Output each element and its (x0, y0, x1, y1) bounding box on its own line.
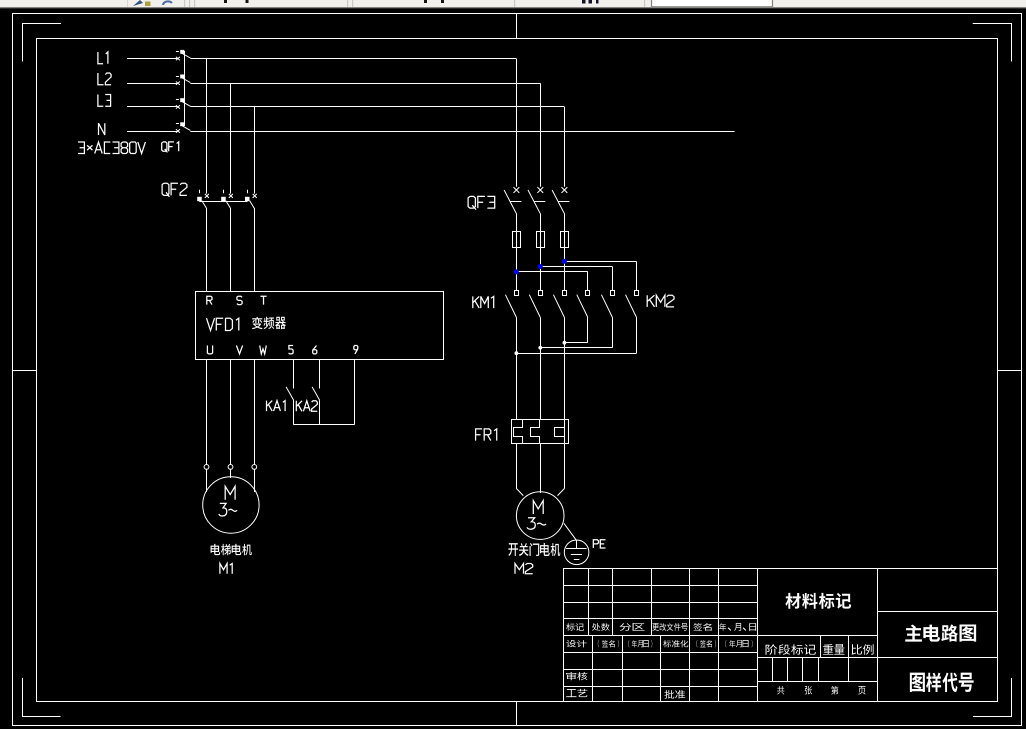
node N label (99, 123, 105, 135)
label KA2 (296, 401, 317, 412)
tb label sheji (566, 640, 586, 647)
label KM1 (473, 296, 494, 308)
pin U (207, 346, 212, 354)
label KA1 (267, 401, 286, 412)
node junction blue dot 3 (562, 259, 567, 264)
pin R (207, 296, 212, 304)
wire FR1 p1 to M2 (516, 443, 523, 495)
tb label pizhun (664, 690, 685, 699)
label QF1 (162, 142, 179, 153)
motor M2 circle (516, 492, 564, 540)
contactor KM1 contacts (505, 291, 566, 318)
wire U into motor (206, 469, 208, 492)
tb label zhang (805, 686, 812, 695)
wire QF2 pole1 to VFD R (206, 208, 208, 292)
label KM2 (647, 295, 674, 307)
wire bus KA outputs to pin9 (294, 424, 355, 426)
label bianpinqi (252, 317, 286, 329)
wire link to KM2 pole2 (540, 267, 612, 291)
motor M1 3~ glyph (219, 503, 237, 516)
ground PE symbol (564, 540, 589, 565)
tb label qianming2 (598, 640, 619, 647)
pin S (237, 296, 242, 304)
wire KM1 pole2 down (540, 317, 542, 419)
toolbar (0, 0, 1026, 8)
wire L3 from label to QF1 (127, 106, 177, 108)
pin 5 (289, 346, 294, 354)
wire VFD 6 down (319, 359, 321, 388)
tb label jieduanbiaoji (766, 644, 816, 655)
tb label biaozhunhua (663, 640, 688, 647)
wire fuse2 to KM1 (540, 247, 542, 290)
tb label nianyueri (719, 623, 756, 631)
wire KM1 pole3 down (564, 317, 566, 419)
tb label shenhe (566, 672, 587, 680)
label FR1 (476, 429, 497, 441)
tb label biaoji (566, 623, 584, 631)
contactor KM2 contacts (577, 291, 639, 318)
wire N from label to QF1 (127, 131, 177, 133)
breaker QF3 (504, 187, 569, 231)
contact KA2 (312, 387, 320, 425)
wire N from QF1 (190, 131, 734, 133)
node L2 label (98, 73, 111, 85)
pin T (260, 296, 266, 304)
wire L2 from QF1 to QF3 drop (190, 83, 540, 85)
label 3xAC380V (78, 142, 145, 154)
wire QF2 pole3 to VFD T (254, 208, 256, 292)
wire KM2 pole3 down and link (516, 317, 636, 353)
wire L2 drop to QF3 (540, 83, 542, 187)
breaker QF1 (176, 50, 191, 133)
motor M1 M glyph (225, 486, 235, 499)
wire L3 from QF1 to QF3 drop (190, 106, 564, 108)
motor M2 M glyph (533, 501, 543, 514)
thermal relay FR1 (512, 419, 569, 443)
breaker QF2 (197, 190, 257, 209)
wire link to KM2 pole1 (516, 272, 587, 291)
tb label ye (858, 686, 865, 695)
node junction blue dot 1 (514, 269, 519, 274)
node junction dot b (538, 346, 542, 350)
tb label di (831, 686, 838, 695)
wire L3 tap down to QF2 (254, 107, 256, 194)
tb label nianyueri2 (628, 640, 652, 647)
label M2 (515, 564, 533, 574)
node L3 label (98, 95, 111, 107)
terminal circle W (252, 465, 257, 470)
label QF3 (468, 196, 495, 209)
title cailiao biaoji (785, 593, 851, 609)
wire fuse3 to KM1 (564, 247, 566, 290)
label VFD1 (207, 318, 239, 330)
wire L1 drop to QF3 (516, 59, 518, 187)
wire VFD W to M1 (254, 359, 256, 464)
contact KA1 (286, 387, 294, 425)
tb label qianming (693, 623, 711, 631)
fuse F3 (561, 231, 569, 248)
title zhudianlutu (905, 624, 976, 641)
tb label chushu (592, 623, 610, 631)
wire VFD V to M1 (230, 359, 232, 464)
node L1 label (98, 52, 108, 64)
label kaiguanmen-dianji (508, 543, 560, 556)
wire VFD U to M1 (206, 359, 208, 464)
pin V (236, 346, 242, 354)
motor M1 circle (203, 477, 259, 533)
tb label gong (777, 686, 784, 694)
wire FR1 p3 to M2 (558, 443, 565, 495)
title tuyangdaihao (910, 673, 974, 692)
pin W (260, 346, 267, 354)
wire L1 tap down to QF2 (206, 59, 208, 194)
motor M2 3~ glyph (527, 518, 546, 530)
wire VFD 5 down (293, 359, 295, 388)
node junction dot c (515, 351, 519, 355)
wire KM2 pole2 down and link (540, 317, 612, 347)
tb label fenqu (619, 623, 644, 631)
label M1 (220, 564, 232, 574)
wire QF2 pole2 to VFD S (230, 208, 232, 292)
fuse F1 (513, 231, 521, 248)
wire FR1 p2 to M2 (540, 443, 542, 493)
tb label genggai (652, 623, 687, 631)
node junction dot a (563, 341, 567, 345)
inverter VFD1 box (196, 292, 444, 360)
tb label gongyi (566, 689, 587, 697)
wire W into motor (254, 469, 256, 492)
wire L2 tap down to QF2 (230, 83, 232, 193)
tb label nianyueri3 (725, 640, 752, 647)
pin 9 (354, 346, 358, 354)
tb label bili (851, 644, 873, 655)
wire M2 to PE (564, 523, 577, 540)
wire L1 from QF1 to QF3 drop (190, 58, 516, 60)
pin 6 (313, 346, 317, 354)
label PE (593, 540, 605, 548)
terminal circle U (204, 465, 209, 470)
label dianti-dianji (211, 544, 252, 555)
wire L3 drop to QF3 (564, 107, 566, 187)
title block grid (564, 568, 998, 702)
label QF2 (162, 183, 187, 197)
wire KM1 pole1 down (516, 317, 518, 419)
wire V into motor (230, 469, 232, 478)
terminal circle V (228, 465, 233, 470)
wire L1 from label to QF1 (127, 58, 177, 60)
tb label qianming3 (696, 640, 716, 647)
wire L2 from label to QF1 (127, 83, 177, 85)
fuse F2 (537, 231, 545, 248)
wire fuse1 to KM1 (516, 247, 518, 290)
tb label zhongliang (823, 644, 844, 655)
node junction blue dot 2 (538, 264, 543, 269)
wire KM2 pole1 down and link (564, 317, 587, 342)
wire VFD 9 down (354, 359, 356, 425)
wire link to KM2 pole3 (564, 261, 636, 290)
